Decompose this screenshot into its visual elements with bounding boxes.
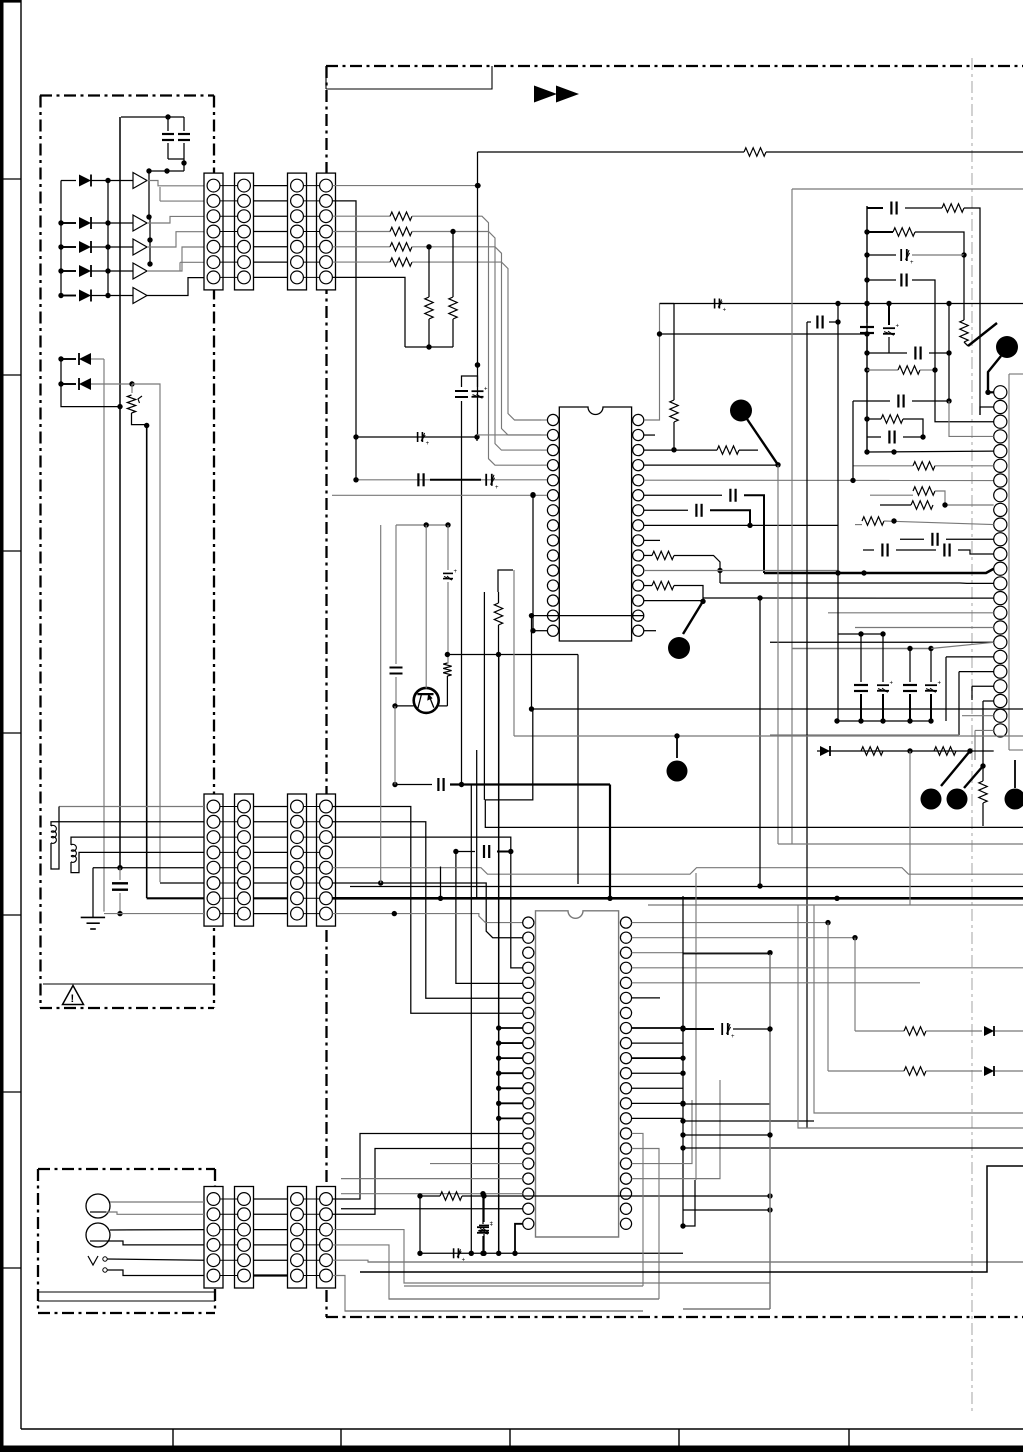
vertical wire x=462 [461,401,463,785]
wire row 1272 step [360,1166,1023,1272]
wire row 736 gray [514,735,1023,737]
wire pad P4 lead [676,736,678,758]
wire branch y=334 [660,333,868,335]
wire CN2 pin2 down [332,201,356,480]
page top-left cap [0,0,21,3]
gray feed y=525 [396,524,448,526]
wire CN6 pin1 dogleg up [332,1134,522,1200]
wire U1 pin1 to vertical x=660 [644,304,660,421]
connector CN5 strip B [235,1187,254,1289]
wire resistor bottom rail [405,346,453,348]
vertical wire x=380 [380,525,382,883]
buffer amplifier A4 [133,263,147,279]
solder pad P7 [1005,789,1023,810]
resistor R24 [934,747,956,755]
wire transistor base from top [425,525,427,689]
capacitor C12 [729,489,731,502]
frame top notch rectangle [325,66,327,89]
wire caps top [462,376,478,387]
capacitor C15 (electrolytic) [900,249,902,261]
U2 pin19 row [341,1193,523,1195]
solder pad P3 [996,336,1018,358]
capacitor C29 row [456,851,475,853]
resistor R25 [982,766,984,781]
vertical x=778 [777,465,779,844]
vertical x=853 [852,401,854,481]
capacitor C34 row 401 [853,400,890,402]
wire row 208 [867,207,883,209]
switch S3 diagonal [941,751,970,786]
diode D8 row [817,750,994,752]
capacitor C20 [900,538,924,540]
left box bottom dash-dot [40,1007,214,1009]
wire rows lower right [683,1103,770,1105]
capacitor C4 [417,473,419,486]
wire pad P3 lead [988,356,1001,392]
wire CN4 pin1 dogleg [332,807,522,1014]
wire row 905 gray [648,904,1023,906]
svg-text:+: + [910,260,914,266]
wire row 784 cap C28 [430,784,432,786]
capacitor C23 [860,634,862,682]
gray L x=814 [814,905,1023,1113]
resistor R19 [870,494,913,496]
resistor R9 [498,592,500,603]
U2 pin1 right [632,922,828,924]
heavy vertical wire x=147 [146,426,148,899]
svg-text:+: + [938,681,942,687]
capacitor bank top rail 2 [792,648,931,650]
wire U1 pin6 cap [644,494,722,496]
svg-text:+: + [896,324,900,330]
resistor R15 [867,231,893,233]
U2 pin18 row [341,1178,523,1180]
resistor R5 [452,232,454,298]
capacitor C21 [863,549,874,551]
bottom title band black bar [0,1446,1023,1452]
capacitor C6 (polarized) [417,432,419,442]
main board frame left dash-dot [325,66,327,1317]
wire row 954 right [683,953,770,955]
capacitor C1 [162,133,174,135]
solder pad P6 [947,789,968,810]
connector CN4 strip A [288,794,307,926]
wire CN6 pin5 dogleg down [332,1260,1023,1262]
capacitor bank top rail 1 [838,633,883,635]
diode D5 [61,295,76,297]
left box inner rule [43,983,214,985]
wire U1 pin7 cap [644,509,688,511]
left margin section dividers [0,178,21,180]
main board frame bottom dash-dot [326,1316,1023,1318]
bottom-left dash-dot box [38,1168,215,1170]
U2 pin14 right [632,1117,683,1119]
connector CN6 strip B [317,1187,336,1289]
wire transistor collector [447,525,449,570]
wire CN2 pin7 down [332,277,405,347]
ground symbol [92,868,94,918]
wire to CN1 pin2 [160,200,204,202]
wire U1 pin5 input [356,479,547,481]
inductor FL2 [71,837,204,845]
resistor R1 [332,215,390,217]
long wire y=152 with resistor R7 [478,151,745,153]
U2 pin13 right [632,1102,683,1104]
buffer output wires to connector CN1 [147,181,204,186]
U2 pin11 right [632,1072,683,1074]
switch S4 diagonal [964,766,983,788]
left diode anode bus [60,181,62,296]
right block rail x=867 [866,206,868,452]
wire U1 pin13 diagonal to pad [700,599,705,604]
op-amp IC U1 [559,407,631,641]
wire CN2 pin1 to node [332,185,478,187]
wire U1 pin15 stub [644,630,656,632]
stub to jog row [440,867,442,899]
capacitor C24 (electrolytic) [882,634,884,682]
wire U1 pin14 [532,615,645,617]
capacitor C2 [178,133,190,135]
svg-text:+: + [890,681,894,687]
wire U1 pin8 row [644,524,838,526]
resistor R22 [440,1192,462,1200]
svg-text:+: + [484,387,488,393]
connector CN5 strip A [204,1187,223,1289]
svg-text:+: + [454,569,458,575]
wire CN6 pin2 dogleg up [332,1149,522,1215]
vertical x=760 [759,598,761,886]
wire to CN1 pin6 [180,261,204,263]
connector CN1 strip A [204,173,223,290]
capacitor C10 (hatched) [443,572,453,574]
ribbon wires CN3-CN4 [254,806,288,808]
U2 pin9-14 straps [499,1042,523,1044]
left box left dash-dot [39,96,41,1009]
connector CN2 strip A [288,173,307,290]
capacitor C35 row 437 [867,436,881,438]
wire jack lead to CN3 pin1 [59,806,204,808]
vertical wire x=476 lower [476,750,478,897]
resistor R11 [717,446,739,454]
wire pin19 L [946,656,994,658]
right connector pin wires [988,391,994,393]
U2 pin20 row [341,1208,523,1210]
wire D7 right branch [132,384,160,882]
wire CN4 pin3 dogleg [332,837,522,968]
resistor R13 [644,585,652,587]
wire U1 pin5 gray long [644,479,994,481]
wire supply drop to buffers [148,171,150,217]
wire D6 down [103,359,105,912]
phono jack J2 [86,1223,110,1247]
diode D6 (left-pointing) [58,356,63,361]
wire cap bottoms [168,158,184,160]
diode D4 [61,270,76,272]
connector CN2 strip B [317,173,336,290]
U2 pin12 right [632,1087,683,1089]
vertical legs [419,1196,421,1253]
wire R3 to U1 [412,247,541,435]
capacitor C5 (electrolytic) [485,474,487,486]
wire CN3 pin6 [160,882,204,884]
phono jack J1 [86,1194,110,1218]
capacitor bank bottom rail [837,720,931,722]
wire U1 pin1-4 entries [541,419,547,421]
heavy bus wire y=573 [764,569,994,573]
U2 pin2 right [632,937,855,939]
vertical x=949 [948,304,950,402]
main board frame top dash-dot [326,65,1023,67]
wire pin6 node [356,436,477,438]
diode D3 [61,246,76,248]
wire pin20 L [959,671,994,673]
left box top dash-dot [40,94,214,96]
vertical x=770 [769,954,771,1309]
U1 right pin circles [633,414,644,425]
resistor R18 [853,465,913,467]
wire row 709 [532,708,1023,710]
U2 pin8 right heavy [632,1027,683,1029]
resistor R3 [332,246,390,248]
vertical x=910 gray [909,751,911,905]
wire row 322 cap C27 [807,321,811,323]
wire row 1135 right [683,1134,770,1136]
resistor R8 [443,663,451,676]
vertical x=696 [695,873,697,1180]
switch S2 diagonal [964,342,968,346]
wire y=654 rail [447,654,578,656]
warning triangle [63,986,84,1005]
wire U1 pin11 row [644,570,838,572]
op-amp IC U2 [536,911,619,1237]
capacitor C25 [909,649,911,683]
wire CN4 pin6 to U2 pin2 [332,883,522,938]
wire U1 pin4 row [644,464,778,466]
variable resistor VR1 [131,384,133,393]
wire CN4 pin7 heavy bus [332,897,1023,900]
wire diode bus bottom [61,359,120,407]
resistor R14 [942,204,964,212]
vertical x=533 [532,495,534,631]
left box right dash-dot [213,96,215,1009]
capacitor C16 [900,274,902,287]
diode D2 [61,222,76,224]
U2 pin17 row [430,1163,523,1165]
vertical x=484 [483,592,485,800]
wire pad P1 diagonal [747,419,778,465]
row 1286 [404,1285,643,1287]
connector CN3 strip A [204,794,223,926]
bottom box inner rules [38,1291,215,1293]
wire CN3 pin7 heavy [147,897,204,899]
resistor R4 [332,261,390,263]
wire CN3 pin5 / ground node [93,867,204,869]
right connector pin circles [994,386,1007,399]
U2 pin15-18 right grays [632,1133,643,1286]
long vertical wire x=120 [119,117,121,867]
capacitor C13 [695,504,697,517]
row 1311 [345,1310,643,1312]
resistor R26 row 419 [867,418,881,420]
wire row 844 gray [778,843,1023,845]
svg-text:+: + [490,1221,494,1227]
wire U1 pin6 stub [476,437,478,441]
vertical x=514 [513,570,515,736]
wire row 1262 gray [368,1261,1023,1263]
connector CN6 strip A [288,1187,307,1289]
U1 left pin circles [547,414,558,425]
row 1299 [389,1298,659,1300]
capacitor C30 (electrolytic) [482,1194,484,1224]
vertical x=471 [470,785,472,1254]
vertical x=980 lower [979,260,981,415]
gray L bottom [683,1308,770,1310]
capacitor C32 (polarized) [453,1248,455,1258]
wire CN6 pin6 dogleg down [332,1276,643,1312]
gray L x=798 [798,905,1023,1128]
wire CN4 pin5 long jog [332,868,1023,875]
wire R1 to U1 chamfer bundle [412,216,541,465]
U2 pin21 corner [515,1224,523,1254]
U2 pin3 right [632,952,770,954]
resistor R10 [660,303,675,305]
wire pin23 row [962,715,994,717]
wire top cap rail [121,116,184,118]
inductor FL1 [51,822,204,826]
resistor R6 [428,247,430,297]
wire CN4 pin8 to U2 pin1 [332,914,522,923]
resistor R23 [861,747,883,755]
capacitor C9 [390,667,403,669]
capacitor C26 (electrolytic) [930,649,932,683]
diode D7 (left-pointing) [58,381,63,386]
solder pad P2 [668,637,690,659]
U2 pin8 strap [499,1027,523,1029]
vertical pin14 drop [531,616,533,709]
U2 left pin stubs [521,922,524,924]
ribbon wires CN5-CN6 [254,1198,288,1200]
svg-text:+: + [426,441,430,447]
right connector frame [1009,373,1023,375]
wire R2 to U1 [412,232,541,451]
wire U1 pin9 row [644,539,660,541]
vertical x=838 [837,304,839,722]
gray box corner [792,188,1023,190]
vertical x=578 [577,655,579,885]
capacitor C17 [860,326,874,328]
diode row 1071 [828,1070,904,1072]
wire CN6 pin4 dogleg down [332,1245,659,1299]
U2 pin10 right heavy [632,1057,683,1059]
connector CN4 strip B [317,794,336,926]
wire CN4 pin2 dogleg [332,822,522,998]
wire pin24 row [975,729,994,731]
buffer amplifier A5 [133,288,147,304]
wire pin21 [972,685,994,687]
U2 pin6 stub [632,997,660,999]
U2 left pin circles [523,917,534,928]
wire row 1253 [420,1252,683,1254]
wire CN3 pin8 [104,913,204,915]
svg-text:+: + [731,1034,735,1040]
capacitor C14 [890,202,892,215]
capacitor C31 (electrolytic) [479,1224,489,1226]
U2 pin5 right [632,982,920,984]
svg-text:+: + [723,308,727,314]
connector CN1 strip B [235,173,254,290]
capacitor C3 [119,868,121,880]
vertical x=807 [806,322,808,1128]
svg-text:+: + [495,485,499,491]
vertical x=498 strap rail [498,655,500,1254]
solder pad P1 [730,400,752,422]
diode row 1031 [855,1030,904,1032]
page left edge bar [0,0,4,1452]
vertical wire x=478 [477,152,479,437]
solder pad P4 [667,761,688,782]
buffer amplifier A3 [133,239,147,255]
buffer input feed vertical [107,181,109,296]
connector CN3 strip B [235,794,254,926]
U1 pin15 strap [533,630,547,632]
resistor R20 [880,504,911,506]
diode D1 [61,180,76,182]
resistor R21 [855,524,862,526]
capacitor C8 (electrolytic) [472,390,484,392]
capacitor C22 [943,544,945,557]
wire rail y=303 long [660,303,1023,305]
buffer amplifier A1 [133,173,147,189]
wire pin22 step [983,700,994,702]
wire row 826 zigzag [485,709,1023,827]
capacitor C18 (electrolytic) [883,327,895,329]
wire buffer supply rail [149,170,167,172]
resistor R17 [963,255,965,320]
U2 pin4 right [632,967,1023,969]
switch SW1 [88,1256,98,1265]
solder pad P5 [921,789,942,810]
wire CN6 pin3 dogleg down [332,1230,770,1283]
wire transistor emitter [395,705,414,707]
ribbon wires CN1-CN2 [254,185,288,187]
wire R4 to U1 [412,262,541,420]
wire U1 pin3 row [644,449,717,451]
wire pin7 gray [498,570,513,592]
fold line (light dash-dot) [971,58,973,1412]
wire U1 pin6L row gray [332,494,547,496]
fast-forward symbol [534,86,557,103]
wire U1 pin2 stub [644,434,655,436]
vertical x=683 [682,896,684,1226]
wire row 353 [867,352,907,354]
capacitor C19 [914,347,916,360]
U2 pin9 right [632,1042,683,1044]
bus wires to right connector pins [720,582,994,584]
resistor R2 [332,231,390,233]
buffer amplifier A2 [133,215,147,231]
svg-text:!: ! [71,993,75,1005]
bottom title band top rule [21,1428,1023,1430]
resistor R16 (gray row) [867,369,898,371]
transistor Q1 [414,688,439,713]
resistor R12 [644,554,652,556]
capacitor C11 (polarized) [714,299,716,309]
left margin rule [20,0,22,1429]
capacitor C7 [455,390,468,392]
wire row 886 [350,886,1023,888]
bottom title band cell dividers [172,1429,174,1446]
U2 right pin circles [620,917,631,928]
